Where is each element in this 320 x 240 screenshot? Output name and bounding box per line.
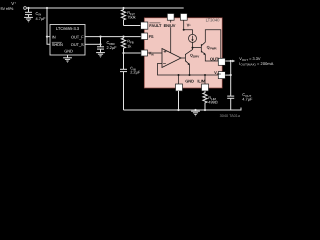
capacitor CREF 2.2uF: [97, 47, 104, 53]
wire OUT to load: [225, 60, 230, 62]
wire EN to amp: [170, 20, 172, 22]
terminal circle V+: [24, 7, 27, 10]
wire drop to SHDN: [47, 37, 50, 45]
wire current source out: [192, 42, 194, 47]
load arrow: [231, 60, 233, 62]
ground (input cap): [24, 17, 33, 22]
resistor RLIM 499: [203, 91, 207, 110]
svg-text:SHDN: SHDN: [52, 42, 63, 47]
pin box FS: [141, 33, 148, 40]
svg-text:3040 TA01a: 3040 TA01a: [220, 114, 241, 118]
wire drop to IN: [47, 8, 50, 37]
wire N1 to QDRV collector: [185, 48, 192, 55]
wire ground rail: [124, 108, 242, 111]
wire QDRV emitter down: [189, 65, 191, 75]
node OUT: [230, 60, 232, 62]
transistor QDRV: [184, 54, 186, 62]
wire GND pin stub: [178, 91, 180, 110]
node feedback QDRV: [189, 74, 191, 76]
wire GND pin drop: [178, 75, 180, 84]
svg-text:2.2µF: 2.2µF: [130, 70, 141, 75]
node IN/SHDN tie: [46, 36, 48, 38]
ground (reference): [63, 58, 72, 63]
svg-text:FS: FS: [149, 34, 154, 39]
QPWR emitter arrowhead: [203, 53, 206, 56]
node RFLT top: [122, 7, 124, 9]
node feedback GND: [178, 74, 180, 76]
node V+ elbow: [183, 29, 185, 31]
svg-text:499Ω: 499Ω: [208, 100, 217, 105]
current source arrow: [192, 36, 194, 40]
svg-text:GND: GND: [185, 78, 194, 83]
wire feedback line to VIOC: [158, 64, 219, 76]
wire to FAULT pin: [124, 25, 141, 27]
wire N1 to QPWR base: [193, 47, 202, 49]
wire VIOC tie: [225, 74, 230, 76]
svg-text:FAULT: FAULT: [149, 23, 162, 28]
op-amp A1: [162, 49, 181, 68]
node feedback ILIM: [204, 74, 206, 76]
wire OUT down: [230, 61, 232, 96]
node RLIM rail: [204, 109, 206, 111]
wire V+ to current source: [184, 20, 193, 34]
pin labels: [149, 23, 222, 84]
svg-text:2.2µF: 2.2µF: [107, 45, 118, 50]
node VIOC OUT tie: [230, 74, 232, 76]
current source I1: [189, 34, 197, 42]
voltage reference U1 LTC6655-3.3: [50, 25, 85, 56]
node reference input drop: [46, 7, 48, 9]
resistor RFLT 750k: [121, 8, 125, 26]
svg-text:OUT: OUT: [210, 56, 219, 61]
QDRV emitter arrowhead: [188, 63, 191, 66]
svg-text:LTC6655-3.3: LTC6655-3.3: [56, 26, 80, 31]
wire kelvin link: [100, 37, 102, 47]
wire ILIM pin drop: [204, 75, 206, 84]
svg-text:4.7µF: 4.7µF: [36, 16, 47, 21]
node CIN junction: [27, 7, 29, 9]
resistor RFB 1k: [121, 37, 125, 53]
wire to VIN pin: [124, 52, 142, 54]
svg-text:5V ±5%: 5V ±5%: [1, 6, 14, 11]
pin box EN/UV: [167, 14, 174, 21]
SHDN overline: [52, 41, 62, 43]
regulator U2 LT3040: [144, 18, 222, 88]
node N1: [192, 47, 194, 49]
svg-text:OUT_S: OUT_S: [71, 42, 84, 47]
pin box V+: [180, 14, 187, 21]
node VIN tie: [122, 52, 124, 54]
svg-text:750k: 750k: [127, 15, 135, 20]
svg-text:LT3040: LT3040: [206, 18, 221, 23]
svg-text:IN: IN: [52, 35, 56, 40]
wire QPWR emitter to OUT: [205, 55, 218, 61]
svg-text:ILIM: ILIM: [197, 78, 205, 83]
ground (rail): [191, 110, 200, 116]
svg-text:EN/UV: EN/UV: [164, 23, 176, 28]
wire reference GND stem: [67, 55, 69, 58]
wire VIN to + input: [148, 52, 163, 54]
wire QPWR collector to OUT: [205, 30, 221, 59]
pin box OUT: [218, 58, 225, 65]
node GND rail: [177, 109, 179, 111]
svg-text:GND: GND: [64, 49, 73, 54]
capacitor COUT 4.7uF: [227, 96, 234, 110]
wire OUT_S: [85, 43, 101, 45]
node kelvin tie top: [99, 36, 101, 38]
capacitor CIN 4.7uF: [25, 8, 32, 17]
transistor QPWR: [200, 44, 202, 53]
pin box VIN: [141, 50, 148, 56]
output labels: [239, 56, 273, 67]
ground (CREF): [96, 53, 105, 58]
FAULT overline: [149, 22, 160, 24]
svg-text:OUT_F: OUT_F: [71, 35, 84, 40]
node kelvin tie bottom: [99, 43, 101, 45]
svg-text:1k: 1k: [127, 43, 131, 48]
pin box VIOC: [218, 72, 225, 79]
node ground rail: [194, 109, 196, 111]
pin box FAULT: [141, 22, 148, 29]
pin box ILIM: [202, 84, 209, 91]
wire main supply rail: [27, 7, 184, 9]
capacitor CIN2 2.2uF: [120, 53, 127, 110]
pin box GND: [176, 84, 183, 91]
chip interior: [148, 20, 221, 84]
svg-text:4.7µF: 4.7µF: [242, 96, 253, 101]
wire OUT_F to FS: [85, 36, 141, 38]
node RFB top: [122, 36, 124, 38]
